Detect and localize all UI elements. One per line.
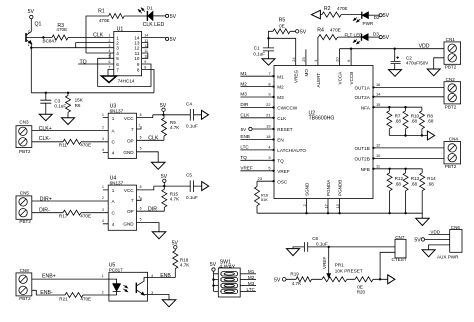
- svg-text:1: 1: [102, 274, 104, 278]
- svg-text:PBT2: PBT2: [445, 65, 457, 70]
- svg-text:6N137: 6N137: [110, 181, 124, 186]
- wire ALERT (U2 pin1): [313, 37, 318, 65]
- wire U1 pin11-pin10 jumper: [142, 53, 148, 58]
- svg-text:R8: R8: [427, 113, 433, 118]
- resistor R8 .68: [419, 107, 433, 135]
- svg-text:7: 7: [116, 67, 119, 72]
- wire OUT2B (U2 pin10): [372, 153, 444, 159]
- svg-text:PC817: PC817: [109, 268, 123, 273]
- capacitor C2 470uF/50V: [391, 49, 430, 70]
- svg-text:GND: GND: [123, 222, 134, 227]
- svg-text:6: 6: [140, 206, 142, 210]
- svg-text:0E: 0E: [279, 23, 285, 28]
- svg-text:CN2: CN2: [446, 77, 456, 82]
- svg-text:OUT1A: OUT1A: [354, 86, 370, 91]
- wire VDD (CN6): [429, 229, 450, 234]
- resistor R5 0E: [269, 18, 296, 39]
- svg-text:.68: .68: [411, 181, 418, 186]
- svg-text:4.7K: 4.7K: [292, 281, 302, 286]
- svg-text:U1: U1: [117, 26, 124, 32]
- svg-text:CN4: CN4: [449, 137, 459, 142]
- svg-text:R2: R2: [324, 6, 331, 12]
- svg-text:5V: 5V: [383, 13, 390, 19]
- svg-text:M2: M2: [240, 81, 247, 86]
- node 5V/VCC (U4): [154, 185, 190, 187]
- connector CN5 PBT2: [16, 190, 32, 224]
- wire OUT1A (U2 pin16): [372, 82, 444, 89]
- wire U5 pin4 (ENB): [144, 272, 175, 279]
- svg-text:0.1uF: 0.1uF: [253, 52, 265, 57]
- svg-text:PR1: PR1: [335, 262, 344, 267]
- resistor R19 4.7K: [286, 271, 322, 286]
- svg-text:9: 9: [268, 92, 270, 97]
- ground (C1): [262, 59, 275, 65]
- arrow (R2 left): [311, 10, 320, 18]
- svg-text:M1: M1: [248, 269, 255, 274]
- svg-text:M3: M3: [240, 92, 247, 97]
- power 5V (D3): [379, 35, 390, 41]
- resistor R2 470E: [320, 6, 361, 17]
- svg-text:VDD: VDD: [430, 229, 440, 234]
- resistor R10 .68: [403, 107, 420, 135]
- svg-text:VCCB: VCCB: [349, 72, 354, 85]
- svg-text:CTEST: CTEST: [392, 257, 407, 262]
- svg-text:4.7K: 4.7K: [170, 125, 180, 130]
- svg-text:CN8: CN8: [20, 268, 30, 273]
- svg-text:VREF: VREF: [322, 257, 327, 269]
- node LTC (SW1): [240, 287, 256, 292]
- svg-text:51K: 51K: [261, 197, 268, 202]
- svg-text:10K PRESET: 10K PRESET: [335, 268, 363, 273]
- svg-text:470E: 470E: [330, 28, 341, 33]
- svg-text:22: 22: [266, 102, 270, 107]
- svg-text:23: 23: [258, 176, 262, 181]
- svg-text:5V: 5V: [170, 37, 177, 43]
- svg-text:7: 7: [268, 71, 270, 76]
- svg-text:RESET: RESET: [277, 127, 293, 132]
- wire SW1 5V bus: [212, 271, 218, 291]
- svg-text:LTC: LTC: [247, 287, 256, 292]
- wire U3 OP (pin6) / node CLK: [137, 135, 165, 141]
- resistor R15 4.7K: [162, 186, 180, 211]
- wire ground rail (bottom): [257, 212, 422, 218]
- resistor R12 .68: [387, 169, 403, 213]
- resistor R17 470E (DIR- wire): [32, 207, 108, 218]
- svg-text:M3: M3: [277, 95, 284, 100]
- svg-text:DIR+: DIR+: [40, 196, 52, 202]
- power 5V (U4): [161, 174, 168, 186]
- svg-text:4: 4: [102, 148, 104, 152]
- svg-text:M1: M1: [240, 71, 247, 76]
- svg-text:12: 12: [376, 143, 380, 148]
- svg-text:5V: 5V: [172, 241, 179, 247]
- resistor R11 470E (CLK- wire): [32, 136, 108, 148]
- svg-text:5V: 5V: [414, 237, 421, 243]
- phototransistor inside U5: [136, 277, 144, 295]
- svg-text:CW/CCW: CW/CCW: [277, 106, 298, 111]
- wire NFA (U2 pin15): [372, 102, 422, 109]
- svg-text:21: 21: [266, 113, 270, 118]
- svg-text:0.1uF: 0.1uF: [186, 195, 198, 200]
- svg-text:0.1uF: 0.1uF: [316, 242, 328, 247]
- resistor R21 470E (ENB- wire): [32, 290, 109, 301]
- svg-text:470E: 470E: [80, 142, 91, 147]
- svg-text:5V: 5V: [160, 103, 167, 109]
- svg-text:5V: 5V: [274, 277, 281, 283]
- wire U4 VCC (pin8): [137, 186, 154, 190]
- wire CN1 pin2 to ground: [434, 58, 444, 69]
- svg-text:8: 8: [140, 185, 142, 189]
- svg-text:VREF: VREF: [240, 166, 252, 171]
- svg-text:6: 6: [116, 62, 119, 67]
- svg-text:FLT LED: FLT LED: [345, 32, 364, 37]
- svg-text:1: 1: [313, 60, 318, 62]
- svg-text:NFB: NFB: [361, 167, 370, 172]
- svg-text:7: 7: [131, 198, 134, 203]
- resistor R9 4.7K: [162, 115, 181, 141]
- svg-text:OP: OP: [127, 138, 134, 143]
- svg-text:470uF/50V: 470uF/50V: [406, 60, 429, 65]
- svg-text:R21: R21: [59, 296, 68, 301]
- svg-text:2: 2: [102, 291, 104, 295]
- svg-text:CLK-: CLK-: [39, 136, 51, 142]
- wire MO stub (U2 pin25): [301, 49, 306, 65]
- svg-text:C1: C1: [254, 45, 260, 50]
- svg-text:VREG: VREG: [294, 70, 299, 83]
- svg-text:25: 25: [301, 57, 306, 61]
- ground (U3 pin5): [152, 162, 166, 169]
- wire NFB (U2 pin11): [372, 164, 422, 171]
- connector CN8 PBT2: [16, 268, 32, 301]
- svg-text:EN: EN: [277, 138, 283, 143]
- svg-text:ENB+: ENB+: [42, 274, 56, 280]
- svg-text:470E: 470E: [80, 296, 91, 301]
- svg-text:5V: 5V: [210, 262, 217, 268]
- svg-text:470E: 470E: [99, 18, 110, 23]
- svg-text:5: 5: [140, 218, 142, 222]
- svg-text:15: 15: [376, 102, 380, 107]
- wire OUT1B (U2 pin12): [372, 143, 444, 149]
- svg-text:1: 1: [109, 34, 111, 38]
- power 5V (U2 RESET pin19): [241, 124, 275, 132]
- svg-text:5V: 5V: [300, 30, 307, 36]
- power 5V (D1): [166, 14, 177, 20]
- svg-text:8: 8: [140, 113, 142, 117]
- resistor R3 470E: [26, 23, 114, 40]
- svg-text:5: 5: [116, 56, 119, 61]
- wire U5 pin3 to ground: [144, 295, 169, 300]
- wire OSC (U2 pin23): [257, 176, 275, 183]
- svg-text:.68: .68: [427, 119, 434, 124]
- wire U1 pin5 loop to pin9: [98, 58, 151, 86]
- svg-text:1: 1: [220, 272, 222, 276]
- IC U1 74HC14: [109, 26, 149, 83]
- svg-text:18: 18: [266, 134, 270, 139]
- node M1 (SW1): [240, 269, 256, 274]
- svg-text:PGNDB: PGNDB: [338, 180, 343, 196]
- svg-text:TQ: TQ: [80, 59, 87, 65]
- connector CN2 PBT2: [444, 77, 461, 109]
- wire U1 pin8 wrap to emitter rail: [142, 70, 154, 93]
- svg-text:R1: R1: [98, 8, 105, 14]
- node ENB (U2 pin18): [240, 134, 274, 140]
- svg-text:3: 3: [220, 284, 222, 288]
- wire U4 OP (pin6) / node DIR: [137, 206, 165, 212]
- svg-text:4: 4: [102, 219, 104, 223]
- svg-text:1: 1: [102, 113, 104, 117]
- node M1 (U2 pin7): [240, 71, 274, 78]
- svg-text:3: 3: [268, 155, 270, 160]
- ground (R6): [62, 118, 75, 125]
- svg-text:4: 4: [109, 49, 111, 53]
- node TQ (U2 pin3): [240, 155, 274, 162]
- power 5V (U1 pin14): [166, 37, 177, 43]
- wire VREF node (C6 to CN7): [308, 246, 395, 248]
- svg-text:D1: D1: [147, 6, 153, 11]
- svg-text:R4: R4: [317, 28, 324, 34]
- capacitor C5 0.1uF: [186, 173, 202, 200]
- svg-text:OSC: OSC: [277, 179, 288, 184]
- svg-text:13: 13: [335, 204, 340, 208]
- wire U1 pin3 (from Q1 emitter): [31, 47, 114, 49]
- svg-text:AUX PWR: AUX PWR: [437, 255, 459, 260]
- svg-text:PBT2: PBT2: [445, 164, 457, 169]
- resistor R7 .68: [387, 107, 402, 135]
- power 5V (Q1 collector): [28, 9, 35, 31]
- ground (U4 pin5): [152, 232, 166, 239]
- svg-text:CN6: CN6: [451, 225, 461, 230]
- svg-text:3: 3: [102, 137, 104, 141]
- node VREF (U2 pin5): [240, 166, 274, 173]
- svg-text:R10: R10: [411, 113, 420, 118]
- svg-text:4-WAY: 4-WAY: [219, 264, 235, 270]
- svg-text:Q1: Q1: [35, 22, 42, 28]
- svg-text:VCC: VCC: [124, 188, 134, 193]
- svg-text:LATCH/AUTO: LATCH/AUTO: [277, 148, 306, 153]
- node DIR (U2 pin22): [240, 102, 274, 109]
- svg-text:.68: .68: [411, 119, 418, 124]
- svg-text:CLK: CLK: [277, 116, 287, 121]
- svg-text:ENB: ENB: [160, 273, 171, 279]
- ground (U1 pin7): [102, 76, 117, 83]
- svg-text:DIR: DIR: [240, 102, 249, 107]
- resistor R13 .68: [403, 169, 419, 213]
- svg-text:5V: 5V: [161, 174, 168, 180]
- svg-text:CN1: CN1: [446, 37, 456, 42]
- svg-text:MO: MO: [304, 69, 309, 77]
- svg-text:PWR: PWR: [363, 21, 374, 26]
- resistor R16 51K: [255, 181, 269, 213]
- capacitor C6 0.1uF: [293, 236, 328, 252]
- node CLK label (U1 pin1): [93, 33, 104, 39]
- switch SW1 4-WAY: [218, 259, 240, 297]
- svg-text:DIR-: DIR-: [39, 207, 50, 213]
- svg-text:8: 8: [137, 67, 140, 72]
- svg-text:5V: 5V: [383, 35, 390, 41]
- node M2 (SW1): [240, 275, 256, 280]
- optocoupler U4 6N137: [102, 176, 142, 231]
- svg-text:CN7: CN7: [395, 235, 405, 240]
- ground arrow (NFA rail): [427, 131, 434, 140]
- wire CN7 pin2 to R20 node: [380, 252, 395, 279]
- svg-text:BC847: BC847: [43, 39, 57, 44]
- node CLK (U2 pin21): [240, 113, 274, 120]
- svg-text:R19: R19: [290, 271, 299, 276]
- wire VREG node (U2 pin24): [267, 37, 296, 65]
- svg-text:VCCA: VCCA: [337, 71, 342, 85]
- node M3 (U2 pin9): [240, 92, 274, 99]
- ground (bottom rail): [416, 218, 429, 225]
- wire VCCB (U2 pin6): [346, 49, 351, 66]
- svg-text:14: 14: [144, 34, 148, 38]
- svg-text:7: 7: [138, 196, 140, 200]
- svg-text:R6: R6: [75, 103, 81, 108]
- svg-text:4.7K: 4.7K: [180, 263, 190, 268]
- svg-text:SGND: SGND: [304, 182, 309, 196]
- svg-text:PBT2: PBT2: [445, 104, 457, 109]
- wire VCCA (U2 pin20): [335, 49, 340, 66]
- ground (C2): [389, 70, 402, 77]
- svg-text:5V: 5V: [28, 9, 35, 15]
- optocoupler U5 PC817: [102, 263, 154, 301]
- ground (U5 pin3): [162, 300, 176, 307]
- svg-text:CLK LED: CLK LED: [143, 22, 165, 28]
- IC U2 TB6600HG: [274, 66, 373, 199]
- svg-text:D3: D3: [373, 32, 379, 37]
- svg-text:ALERT: ALERT: [316, 73, 321, 88]
- wire OUT2A (U2 pin14): [372, 92, 444, 99]
- resistor R6 15K: [66, 93, 84, 118]
- ground (CN1): [427, 69, 440, 76]
- svg-text:5: 5: [268, 166, 270, 171]
- wire U1 pin7 to ground: [108, 70, 114, 77]
- resistor R4 470E: [317, 28, 363, 40]
- wire PGNDB stub (U2 pin13): [335, 199, 340, 214]
- svg-text:16: 16: [376, 82, 380, 87]
- svg-text:ENB-: ENB-: [40, 290, 53, 296]
- svg-text:1: 1: [102, 185, 104, 189]
- transistor Q1 BC847: [26, 22, 57, 93]
- svg-text:.68: .68: [427, 181, 434, 186]
- svg-text:0.1uF: 0.1uF: [186, 124, 198, 129]
- svg-text:12: 12: [134, 46, 140, 51]
- power 5V (SW1): [210, 262, 217, 271]
- resistor R20 0E: [355, 277, 388, 295]
- svg-text:4: 4: [112, 151, 115, 156]
- ground (C6): [287, 249, 300, 256]
- LED D1 CLK LED: [138, 6, 165, 28]
- svg-text:R7: R7: [395, 113, 401, 118]
- LED D2 PWR: [353, 12, 380, 26]
- svg-text:19: 19: [266, 124, 270, 129]
- svg-text:R14: R14: [427, 176, 436, 181]
- wire U3 VCC (pin8): [137, 115, 153, 118]
- capacitor C3 0.1uF: [40, 93, 66, 114]
- svg-text:CN3: CN3: [19, 119, 29, 124]
- svg-text:CN5: CN5: [20, 190, 30, 195]
- svg-text:.68: .68: [395, 119, 402, 124]
- svg-text:1: 1: [28, 43, 30, 47]
- LED D3 FLT: [353, 32, 379, 44]
- wire U1 pin14 to 5V: [142, 37, 166, 39]
- ground arrow (C4): [202, 110, 209, 119]
- svg-text:TQ: TQ: [277, 158, 284, 163]
- LED inside U5: [109, 279, 128, 295]
- svg-text:ENB: ENB: [240, 134, 249, 139]
- svg-text:.68: .68: [395, 181, 402, 186]
- wire CN6 pin3 to ground: [429, 245, 450, 250]
- wire U1 pin2-pin3 jumper: [76, 43, 114, 48]
- svg-text:LTC: LTC: [240, 145, 249, 150]
- connector CN4 PBT2: [444, 137, 461, 169]
- wire NFA resistor bottom rail: [389, 134, 427, 136]
- power 5V (U3): [160, 103, 167, 115]
- svg-text:PBT2: PBT2: [19, 296, 31, 301]
- svg-text:1: 1: [112, 116, 115, 121]
- svg-text:OUT2A: OUT2A: [354, 95, 370, 100]
- wire ENB+: [32, 274, 109, 280]
- svg-text:6: 6: [346, 60, 351, 62]
- node M2 (U2 pin8): [240, 81, 274, 88]
- svg-text:PBT2: PBT2: [19, 149, 31, 154]
- node LTC (U2 pin4): [240, 145, 274, 151]
- connector CN7 CTEST: [392, 235, 407, 262]
- svg-text:OP: OP: [127, 209, 134, 214]
- svg-text:R11: R11: [59, 142, 68, 147]
- svg-text:VREF: VREF: [277, 169, 289, 174]
- svg-text:GND: GND: [123, 150, 134, 155]
- svg-text:C5: C5: [186, 173, 192, 178]
- svg-text:470E: 470E: [56, 27, 67, 32]
- connector CN1 PBT2: [444, 37, 461, 70]
- wire SGND stub (U2 pin2): [302, 199, 307, 214]
- svg-text:R13: R13: [411, 176, 420, 181]
- wire VDD: [340, 44, 445, 50]
- wire U3 GND (pin5): [137, 152, 159, 163]
- svg-text:4.7K: 4.7K: [170, 197, 180, 202]
- svg-text:M3: M3: [248, 281, 255, 286]
- svg-text:5V: 5V: [241, 127, 248, 132]
- svg-text:CLK: CLK: [148, 135, 159, 141]
- svg-text:7: 7: [131, 127, 134, 132]
- svg-text:2: 2: [28, 30, 30, 34]
- svg-text:8: 8: [268, 81, 270, 86]
- resistor R1 470E: [86, 8, 147, 53]
- node 5V/VCC (U3): [153, 114, 191, 116]
- connector CN3 PBT2: [16, 119, 32, 153]
- svg-text:TQ: TQ: [240, 155, 247, 160]
- node TQ (U1 pin6): [78, 59, 114, 65]
- svg-text:R12: R12: [395, 176, 404, 181]
- svg-text:17: 17: [324, 204, 329, 208]
- power 5V (R19): [274, 277, 286, 283]
- svg-text:4: 4: [116, 51, 119, 56]
- svg-text:4: 4: [220, 290, 222, 294]
- connector CN6 AUX PWR: [437, 225, 462, 260]
- svg-text:2: 2: [302, 204, 307, 206]
- svg-text:CLK: CLK: [93, 33, 104, 39]
- ground (CN6): [422, 250, 435, 257]
- svg-text:7: 7: [138, 124, 140, 128]
- svg-text:CLK: CLK: [240, 113, 250, 118]
- preset PR1 10K: [322, 247, 363, 282]
- svg-text:R17: R17: [59, 213, 68, 218]
- svg-text:0.1uF: 0.1uF: [54, 103, 66, 108]
- svg-text:3: 3: [116, 46, 119, 51]
- svg-text:PBT2: PBT2: [19, 219, 31, 224]
- svg-text:C4: C4: [186, 101, 192, 106]
- svg-text:470E: 470E: [80, 213, 91, 218]
